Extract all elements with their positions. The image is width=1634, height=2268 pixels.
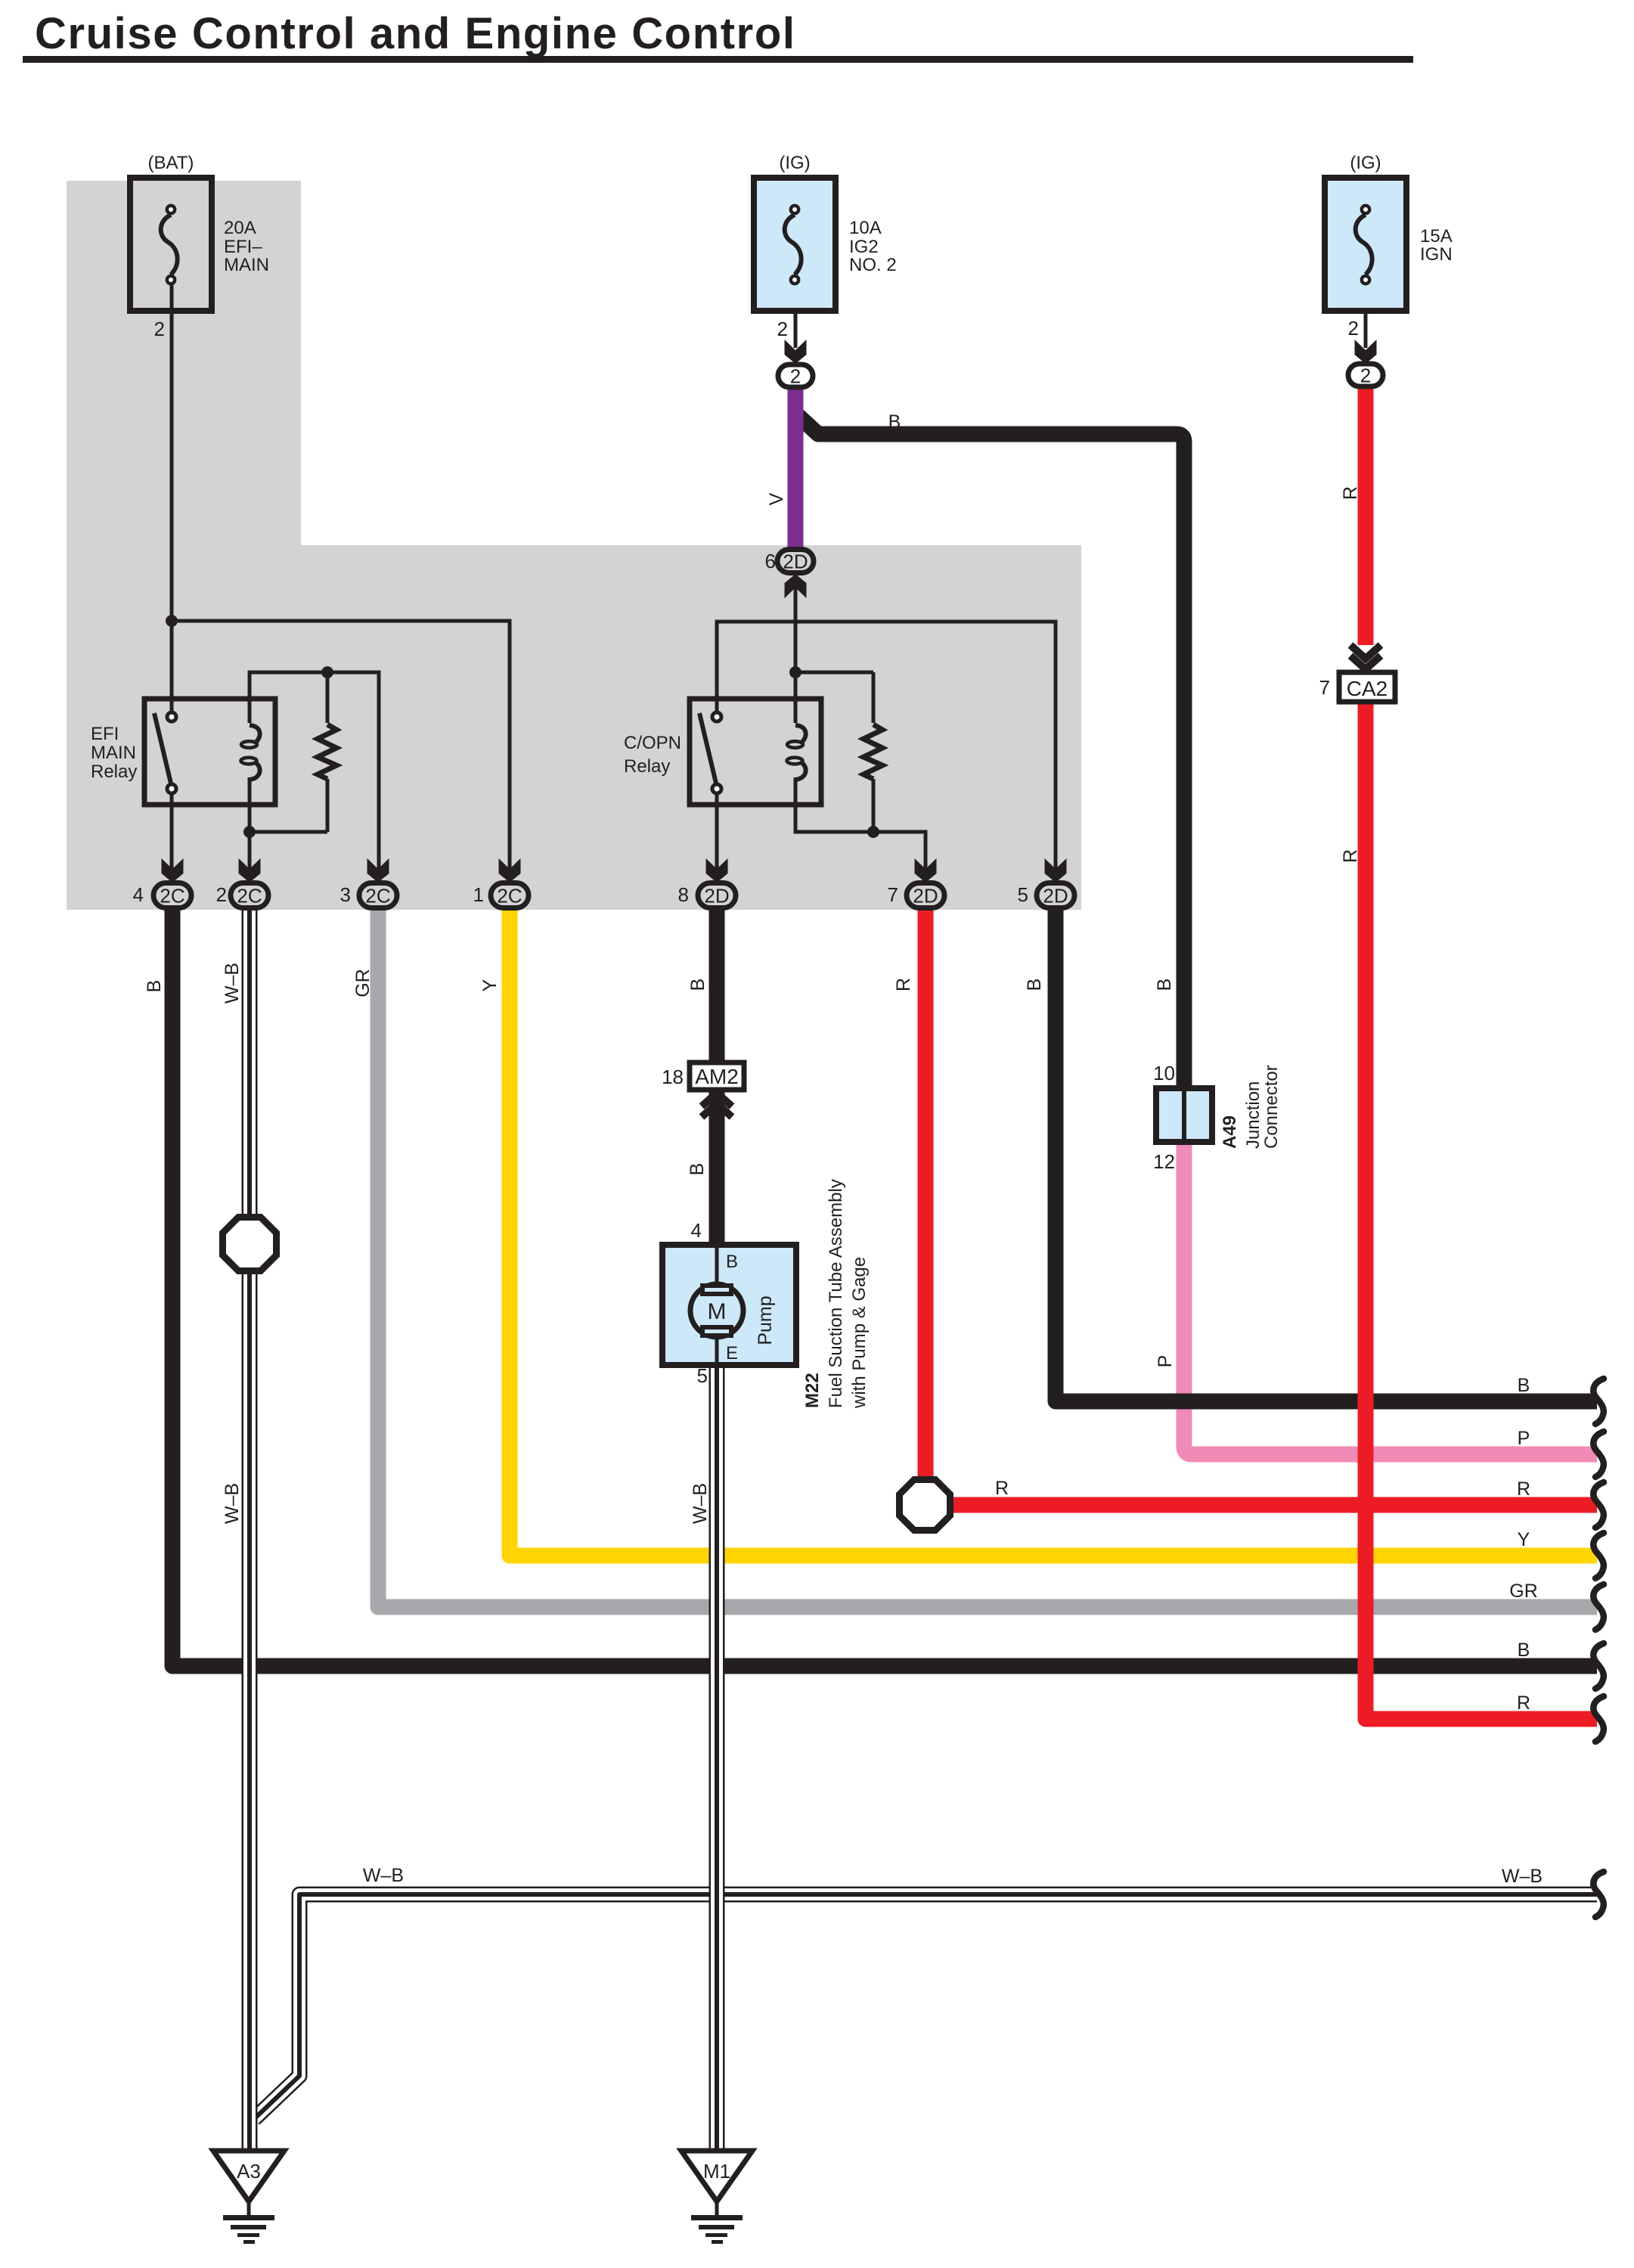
- svg-text:7: 7: [1319, 676, 1330, 699]
- svg-text:18: 18: [662, 1066, 684, 1088]
- svg-text:2: 2: [1348, 317, 1359, 340]
- svg-text:MAIN: MAIN: [224, 255, 269, 275]
- svg-text:W–B: W–B: [690, 1483, 711, 1524]
- svg-text:GR: GR: [352, 969, 374, 997]
- svg-text:2C: 2C: [497, 884, 522, 907]
- svg-text:R: R: [893, 978, 914, 991]
- svg-text:CA2: CA2: [1347, 677, 1388, 700]
- svg-text:V: V: [766, 492, 787, 505]
- svg-text:10: 10: [1153, 1062, 1175, 1084]
- svg-text:2: 2: [790, 365, 801, 387]
- svg-text:W–B: W–B: [222, 1483, 243, 1524]
- svg-text:(BAT): (BAT): [148, 153, 194, 173]
- svg-text:R: R: [1340, 849, 1361, 863]
- svg-text:B: B: [888, 411, 901, 433]
- svg-text:B: B: [1518, 1375, 1530, 1396]
- svg-text:Cruise Control and Engine Cont: Cruise Control and Engine Control: [35, 9, 796, 58]
- svg-text:2: 2: [154, 318, 165, 340]
- svg-text:M: M: [708, 1299, 727, 1324]
- svg-text:Junction: Junction: [1243, 1081, 1263, 1149]
- svg-text:2C: 2C: [365, 884, 390, 907]
- svg-text:P: P: [1518, 1428, 1530, 1449]
- svg-text:GR: GR: [1509, 1581, 1538, 1602]
- svg-text:4: 4: [691, 1219, 702, 1242]
- svg-text:Pump: Pump: [755, 1295, 776, 1345]
- svg-text:2D: 2D: [704, 884, 729, 907]
- svg-text:R: R: [1517, 1692, 1530, 1714]
- svg-text:MAIN: MAIN: [91, 743, 136, 763]
- svg-text:Relay: Relay: [91, 762, 137, 782]
- svg-text:8: 8: [678, 883, 689, 906]
- svg-text:M22: M22: [802, 1373, 823, 1408]
- svg-text:B: B: [1154, 979, 1175, 991]
- svg-text:2: 2: [216, 883, 227, 906]
- svg-text:Relay: Relay: [624, 756, 670, 777]
- svg-text:12: 12: [1153, 1150, 1175, 1173]
- svg-text:(IG): (IG): [779, 153, 810, 173]
- svg-text:R: R: [1340, 486, 1361, 500]
- svg-text:EFI–: EFI–: [224, 237, 262, 257]
- svg-text:Y: Y: [1518, 1529, 1530, 1550]
- svg-text:5: 5: [697, 1364, 708, 1387]
- svg-text:2D: 2D: [1043, 884, 1068, 907]
- svg-text:2D: 2D: [783, 550, 808, 572]
- svg-text:4: 4: [133, 883, 144, 906]
- svg-text:20A: 20A: [224, 218, 256, 238]
- svg-text:3: 3: [340, 883, 351, 906]
- svg-text:10A: 10A: [849, 218, 882, 238]
- svg-text:B: B: [1518, 1640, 1530, 1661]
- svg-text:B: B: [1024, 979, 1045, 991]
- svg-text:A3: A3: [237, 2160, 261, 2183]
- svg-text:B: B: [687, 979, 708, 991]
- svg-text:Connector: Connector: [1261, 1065, 1282, 1149]
- svg-text:AM2: AM2: [695, 1065, 739, 1088]
- svg-text:W–B: W–B: [222, 963, 243, 1004]
- svg-text:15A: 15A: [1420, 226, 1453, 247]
- svg-text:2: 2: [1360, 364, 1371, 386]
- svg-text:E: E: [726, 1343, 738, 1364]
- svg-text:with Pump & Gage: with Pump & Gage: [849, 1257, 870, 1409]
- svg-text:6: 6: [765, 550, 776, 572]
- svg-text:IG2: IG2: [849, 237, 879, 257]
- svg-text:2C: 2C: [237, 884, 262, 907]
- svg-text:2: 2: [777, 318, 788, 340]
- svg-text:R: R: [1517, 1478, 1530, 1500]
- svg-text:7: 7: [888, 883, 898, 906]
- svg-text:EFI: EFI: [91, 724, 119, 744]
- svg-text:2C: 2C: [160, 884, 184, 907]
- svg-text:NO. 2: NO. 2: [849, 255, 897, 275]
- svg-text:B: B: [144, 980, 165, 993]
- svg-text:(IG): (IG): [1350, 153, 1381, 173]
- svg-text:5: 5: [1018, 883, 1028, 906]
- svg-text:1: 1: [473, 883, 484, 906]
- svg-text:W–B: W–B: [1502, 1866, 1543, 1887]
- svg-text:W–B: W–B: [363, 1865, 404, 1886]
- svg-text:B: B: [726, 1252, 738, 1272]
- svg-text:P: P: [1155, 1355, 1176, 1368]
- svg-text:M1: M1: [703, 2160, 730, 2183]
- svg-text:B: B: [687, 1163, 708, 1176]
- svg-text:IGN: IGN: [1420, 244, 1453, 265]
- svg-text:Y: Y: [479, 979, 501, 991]
- svg-text:R: R: [995, 1478, 1009, 1499]
- svg-text:A49: A49: [1220, 1115, 1240, 1149]
- svg-text:Fuel Suction Tube Assembly: Fuel Suction Tube Assembly: [826, 1179, 846, 1408]
- svg-text:2D: 2D: [913, 884, 938, 907]
- svg-text:C/OPN: C/OPN: [624, 733, 681, 753]
